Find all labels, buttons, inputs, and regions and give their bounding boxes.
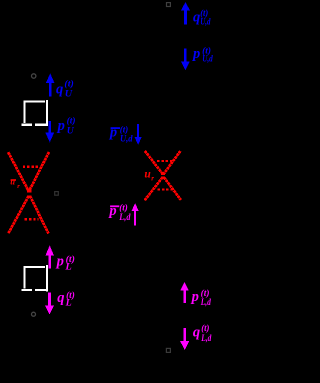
fan right upper ellipsis [157,160,172,162]
svg-text:p: p [55,254,64,270]
svg-text:U: U [67,126,75,136]
fan right vertex dots [161,173,165,176]
svg-text:p: p [190,289,199,305]
node marker bottom-right square [166,348,170,352]
label u_r right [144,169,154,183]
label u_r bar left [10,177,20,190]
label p_U^(t) [56,115,76,136]
svg-text:L: L [65,299,72,309]
arrow q_L magenta down [45,293,54,315]
label p_L^(t) [55,254,75,273]
fan left lower-right arm [30,196,49,234]
svg-text:q: q [193,10,200,26]
node marker center square [55,192,59,196]
svg-text:p: p [56,118,65,134]
label q_L,d^(t) [193,323,212,344]
label pbar_L,d^(t) mid [107,203,130,224]
fan right upper-right arm [164,151,181,174]
node marker top-left circle [32,74,36,78]
label p_U,d^(t) [191,46,213,65]
dashed square upper [22,100,47,126]
svg-text:L: L [64,263,72,273]
svg-text:p: p [108,125,117,141]
arrow p_L,d magenta up [180,282,188,303]
label q_L^(t) [57,290,75,309]
arrow q_U blue up [46,73,55,96]
svg-text:U: U [65,89,74,99]
svg-text:L,d: L,d [201,334,212,344]
svg-text:(t): (t) [64,79,73,90]
svg-text:p: p [107,203,116,219]
svg-text:U,d: U,d [202,54,213,64]
label p_L,d^(t) [190,288,211,308]
node marker top-right square [167,3,171,7]
overline of pbar_L,d mid [110,205,119,207]
fan left upper-left arm [8,152,28,190]
svg-text:(t): (t) [201,323,209,334]
svg-text:U,d: U,d [200,18,210,28]
arrow p_U,d blue down [181,49,190,71]
overline of pbar_U,d mid [111,127,120,129]
svg-text:L,d: L,d [200,298,211,308]
svg-text:(t): (t) [119,203,128,214]
label q_U^(t) [56,79,74,100]
fan left lower ellipsis [25,218,39,220]
svg-text:p: p [191,46,200,62]
arrow p_L magenta up [45,245,54,268]
arrow q_U,d blue up [181,2,190,25]
svg-text:q: q [193,325,200,341]
svg-text:u: u [10,177,15,187]
arrow q_L,d magenta down [180,328,189,350]
fan right lower-right arm [164,177,181,200]
arrow p_U blue down [46,121,55,142]
svg-text:(t): (t) [67,115,76,126]
label pbar_U,d^(t) mid [108,124,133,144]
fan right lower ellipsis [158,188,175,190]
overline of u_r left [11,179,16,181]
arrow pbar_U,d blue down mid [135,124,142,145]
svg-text:U,d: U,d [120,134,133,144]
fan left upper ellipsis [23,166,39,168]
fan left lower-left arm [8,196,28,234]
svg-text:r: r [151,174,154,182]
arrow pbar_L,d magenta up mid [132,203,139,225]
label q_U,d^(t) [193,8,211,27]
svg-text:q: q [56,81,63,97]
dashed square lower [22,265,47,291]
fan right lower-left arm [145,177,163,200]
fan left upper-right arm [30,152,50,190]
svg-text:L,d: L,d [118,213,130,223]
node marker bottom-left circle [32,312,36,316]
svg-text:q: q [57,290,64,306]
fan right upper-left arm [145,151,163,174]
fan left vertex dots [27,189,31,192]
